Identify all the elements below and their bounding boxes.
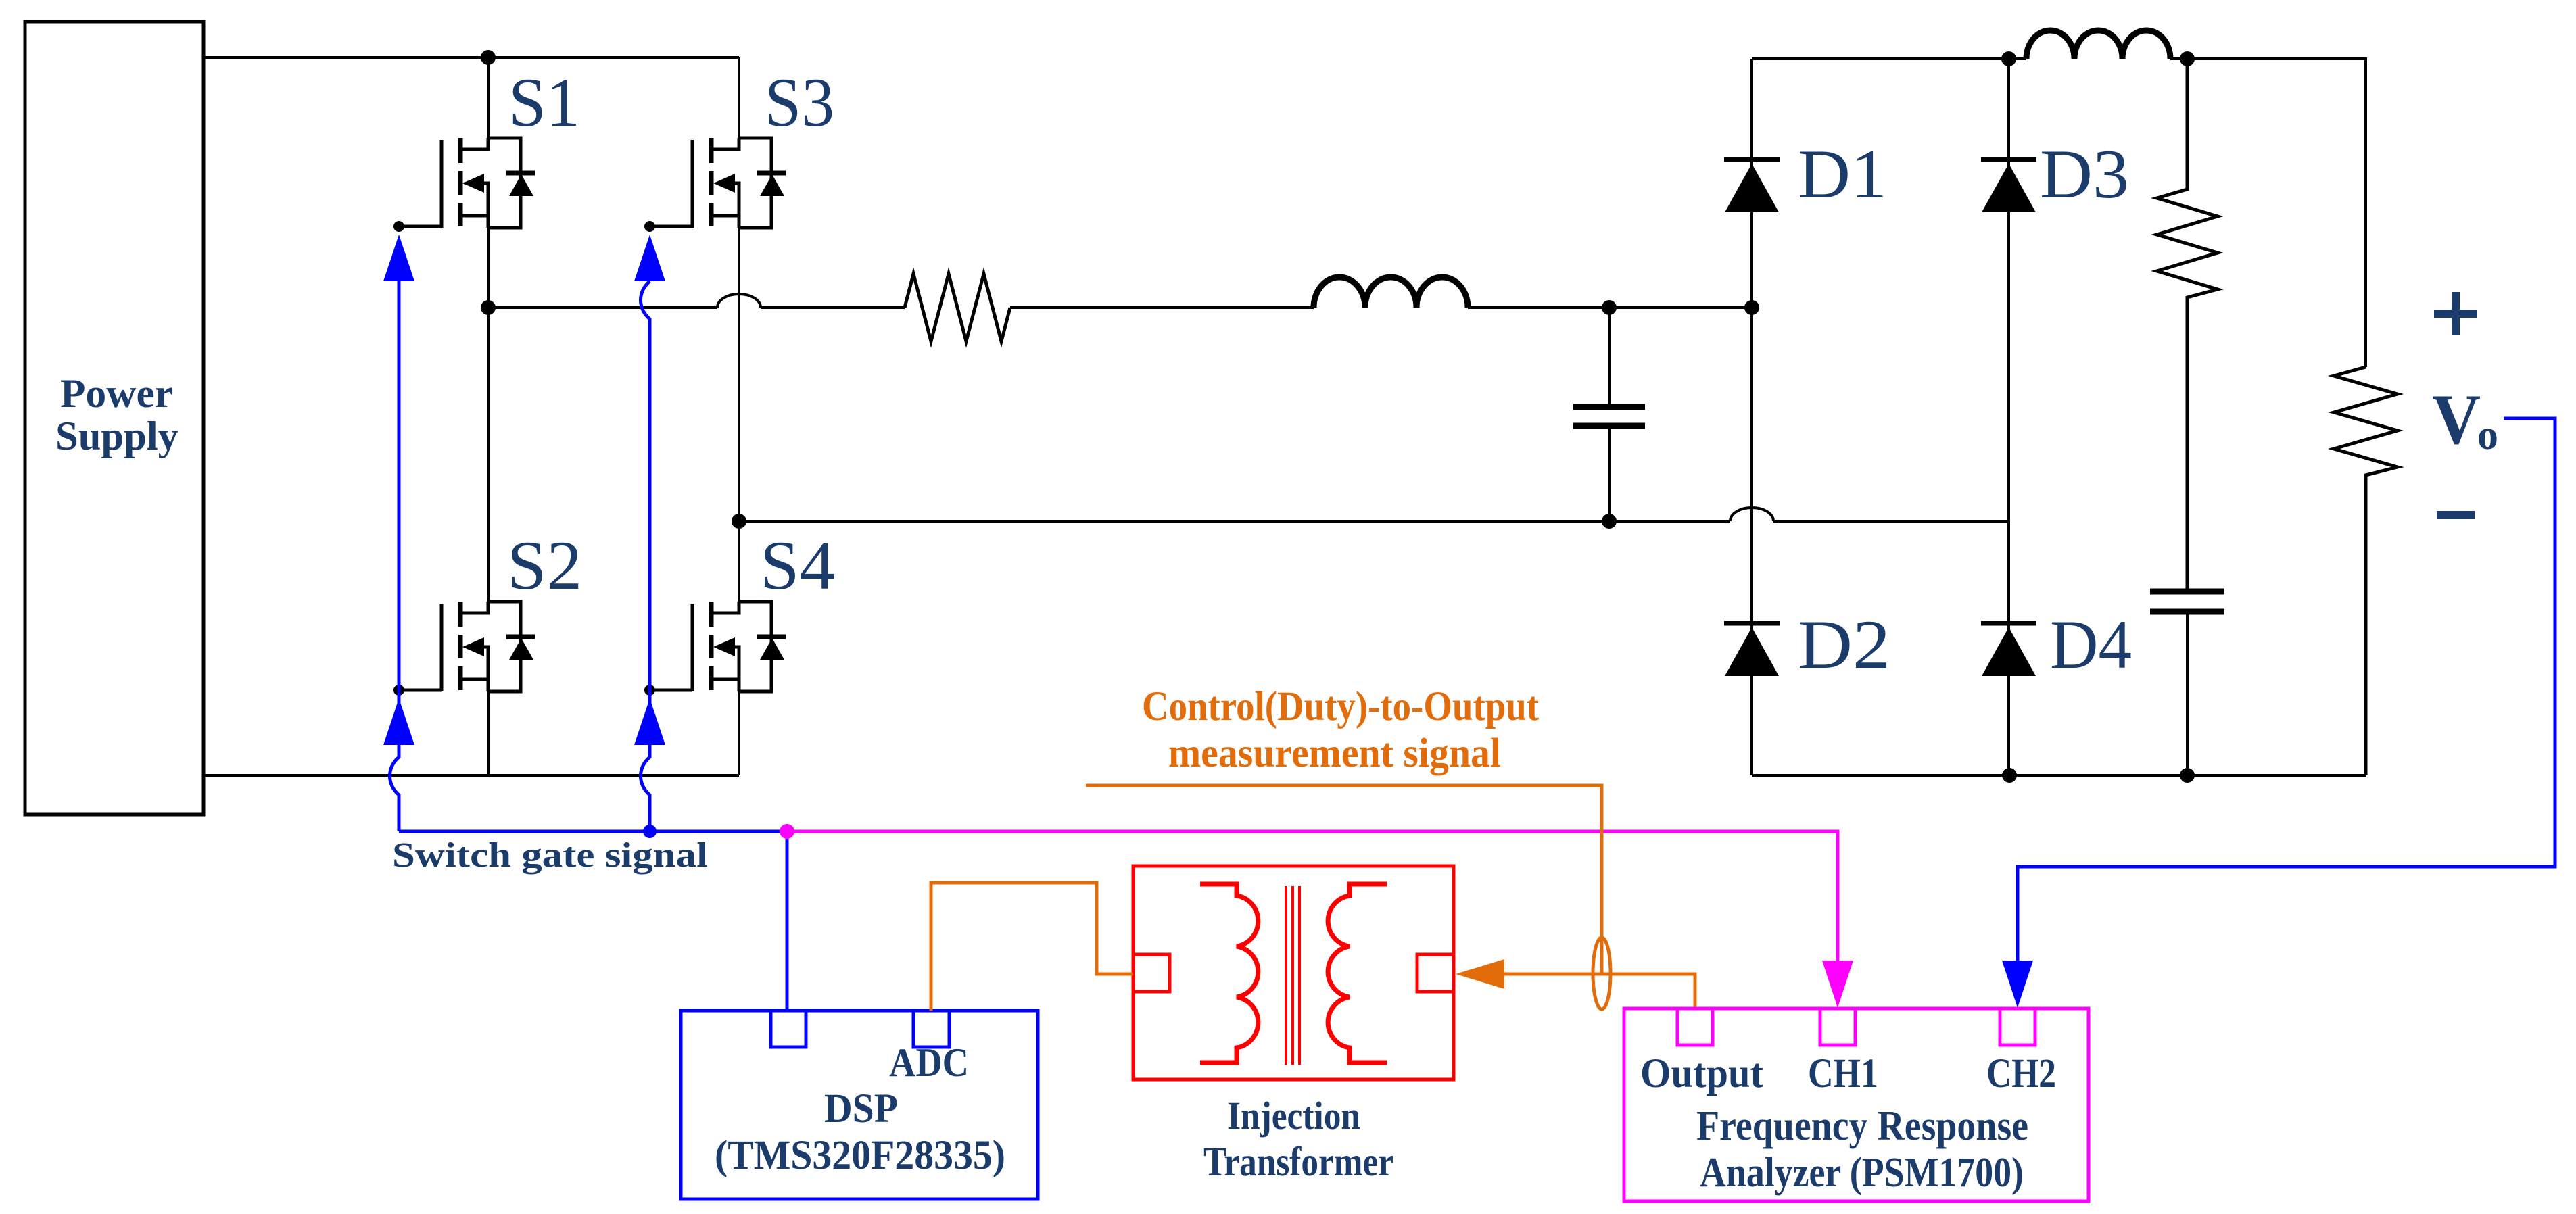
wire: S3 source to node	[738, 228, 740, 521]
svg-text:CH1: CH1	[1808, 1051, 1878, 1096]
resistor Rd (damping)	[2157, 59, 2218, 591]
svg-text:D1: D1	[1798, 136, 1887, 213]
inductor Lo (output)	[2026, 30, 2170, 59]
wire: upper mid wire to resistor	[761, 306, 905, 309]
wire: S2 drain lead	[487, 308, 490, 602]
svg-text:Analyzer (PSM1700): Analyzer (PSM1700)	[1700, 1150, 2024, 1196]
wire: output rail right	[2170, 59, 2366, 367]
blue gate arrow S2	[383, 698, 414, 745]
svg-text:Output: Output	[1640, 1051, 1764, 1096]
resistor R load	[2334, 367, 2398, 775]
wire: ADC to transformer orange	[931, 883, 1133, 1011]
node: upper cap node	[1602, 300, 1617, 315]
transistor S4	[644, 602, 786, 696]
svg-text:CH2: CH2	[1986, 1051, 2056, 1096]
svg-text:Injection: Injection	[1227, 1094, 1360, 1138]
wire: upper mid wire left	[488, 306, 717, 309]
wire: resistor to inductor	[1010, 306, 1314, 309]
svg-text:S3: S3	[765, 64, 834, 141]
wire: S3 drain lead	[738, 57, 740, 138]
wire: DC+ rail	[204, 56, 739, 59]
wire: D3-D4 leg	[2007, 59, 2010, 775]
diode D3	[1981, 160, 2036, 212]
wire: Vo sense blue	[2018, 418, 2555, 961]
node: S3-S4 mid	[732, 514, 746, 529]
blue gate arrow S1	[383, 235, 414, 281]
Injection Transformer box	[1133, 866, 1454, 1079]
wire: rectifier bottom rail	[1752, 774, 2366, 777]
diode D2	[1724, 623, 1780, 676]
wire: S4 drain lead	[738, 521, 740, 602]
transistor S3	[644, 138, 786, 232]
arrow into transformer	[1456, 959, 1504, 989]
arrow CH1	[1822, 961, 1853, 1008]
node: lower cap node	[1602, 514, 1617, 529]
svg-text:DSP: DSP	[824, 1086, 898, 1132]
node: D3 top	[2001, 51, 2016, 66]
svg-text:(TMS320F28335): (TMS320F28335)	[715, 1133, 1005, 1178]
wire: gate drive line S1S2	[390, 281, 400, 831]
resistor R (series)	[905, 274, 1010, 341]
node: gate bus joint	[643, 825, 657, 838]
wire: S1 drain lead	[487, 57, 490, 138]
blue gate arrow S3	[634, 235, 665, 281]
wire: D1-D2 leg	[1750, 59, 1753, 775]
wire: lower mid wire right	[1773, 520, 2009, 523]
probe ellipse	[1593, 938, 1611, 1009]
capacitor C (parallel)	[1573, 308, 1645, 521]
svg-text:ADC: ADC	[889, 1040, 969, 1085]
svg-text:Control(Duty)-to-Output: Control(Duty)-to-Output	[1142, 684, 1540, 729]
arrow CH2	[2002, 961, 2033, 1008]
Power Supply box	[25, 22, 204, 815]
wire: CH1 sense magenta	[787, 831, 1838, 961]
svg-text:D3: D3	[2040, 136, 2129, 213]
svg-text:S1: S1	[508, 64, 580, 141]
svg-text:S2: S2	[507, 527, 582, 604]
node: magenta tap	[780, 824, 794, 839]
wire: S1 source to node	[487, 228, 490, 308]
wire: control callout underline	[1086, 785, 1602, 974]
wire: S2 source to rail	[487, 691, 490, 775]
wire: gate drive line S3S4	[641, 281, 650, 831]
node: damping bottom	[2180, 768, 2195, 783]
node: S1 drain top	[481, 50, 496, 65]
Power Supply label	[55, 371, 178, 458]
node: D4 bottom	[2002, 768, 2017, 783]
svg-text:Frequency Response: Frequency Response	[1696, 1103, 2028, 1149]
svg-text:V: V	[2432, 380, 2481, 459]
node: damping top	[2180, 51, 2195, 66]
wire hop over D1 leg	[1730, 508, 1773, 521]
blue gate arrow S4	[634, 698, 665, 745]
DSP box	[681, 1011, 1038, 1199]
svg-text:Power: Power	[60, 371, 173, 416]
transformer core	[1286, 886, 1299, 1065]
transistor S1	[393, 138, 535, 232]
wire: DC- rail	[204, 774, 739, 777]
node: upper bridge node	[1744, 300, 1759, 315]
wire: rectifier top rail	[1752, 57, 2026, 60]
transformer secondary winding	[1328, 884, 1387, 1063]
capacitor Cd (damping)	[2150, 591, 2224, 775]
transistor S2	[393, 602, 535, 696]
wire: gate bus blue	[399, 830, 787, 833]
inductor L (series)	[1314, 277, 1468, 308]
Frequency Response Analyzer box	[1624, 1009, 2089, 1201]
svg-text:D4: D4	[2050, 606, 2132, 683]
label plus	[2434, 292, 2477, 335]
wire hop over S3 leg	[717, 294, 761, 308]
wire: S4 source to rail	[738, 691, 740, 775]
node: S1-S2 mid	[481, 300, 496, 315]
svg-text:S4: S4	[760, 527, 835, 604]
svg-text:o: o	[2477, 412, 2498, 458]
wire: output injection orange	[1504, 974, 1695, 1009]
svg-text:D2: D2	[1798, 606, 1890, 683]
wire: inductor to cap node	[1468, 306, 1752, 309]
diode D1	[1724, 160, 1780, 212]
svg-text:Transformer: Transformer	[1203, 1140, 1393, 1185]
diode D4	[1981, 623, 2036, 676]
label minus	[2437, 511, 2475, 519]
transformer primary winding	[1200, 884, 1258, 1063]
svg-text:Switch gate signal: Switch gate signal	[392, 836, 708, 875]
wire: DSP drop	[786, 831, 789, 1011]
wire: lower mid wire	[739, 520, 1730, 523]
svg-text:measurement signal: measurement signal	[1168, 731, 1501, 776]
svg-text:Supply: Supply	[55, 414, 178, 458]
